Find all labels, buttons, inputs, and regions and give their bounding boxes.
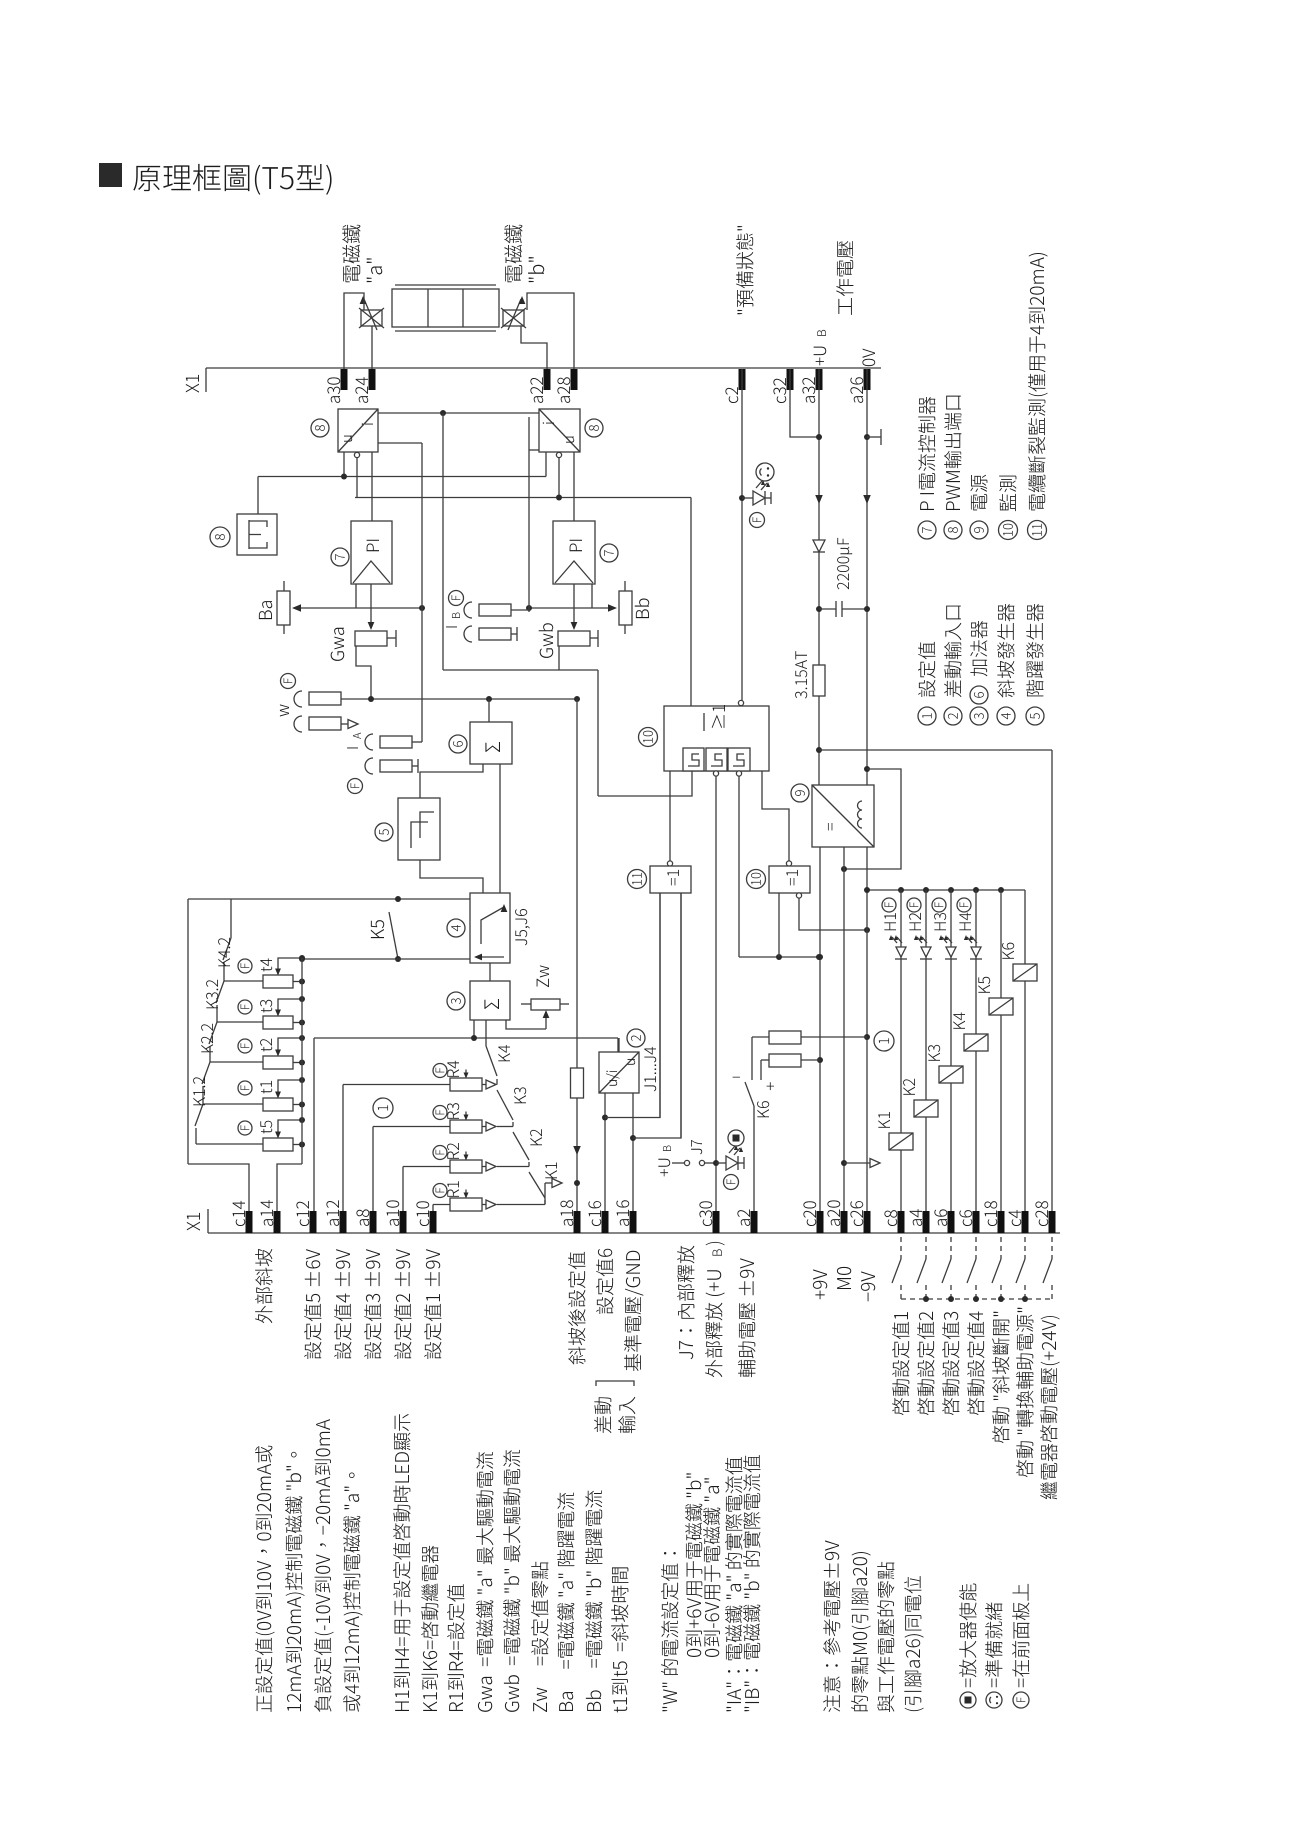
relay coil K6: [1013, 964, 1037, 981]
external ramp rail: [187, 899, 189, 1164]
wire node to sum: [442, 413, 444, 670]
legend notes left: [255, 1446, 275, 1712]
net c28: [1051, 750, 1053, 1211]
adder 3: [489, 963, 491, 981]
pin a24: [369, 369, 376, 390]
wire monitor bus (y497): [356, 457, 358, 498]
u/i converter U8a: [338, 409, 378, 452]
net a16: [632, 1093, 634, 1211]
switch K5: [188, 898, 470, 900]
pin c2: [739, 369, 746, 390]
potentiometer t1: [263, 1098, 293, 1111]
power supply block 9: [812, 785, 874, 847]
pin c18: [998, 1211, 1005, 1233]
u/i converter U8b: [539, 409, 580, 452]
PI controller 7a: [351, 521, 392, 584]
pin a26: [864, 369, 871, 390]
net a20 M0: [843, 847, 845, 1211]
net a18 ramped setpoint: [576, 699, 578, 1211]
pin c10: [430, 1211, 437, 1233]
switch K6 external release: [751, 1037, 753, 1080]
jumper J7: [658, 1159, 670, 1177]
relay coil K1: [889, 1133, 913, 1150]
pin c4: [1022, 1211, 1029, 1233]
wire i-bus between converters: [378, 412, 539, 414]
pin c6: [973, 1211, 980, 1233]
wire a24 to solenoid a: [371, 326, 373, 369]
resistor R-: [769, 1054, 801, 1067]
external switching contacts: [900, 1237, 902, 1259]
wire w summing node: [341, 698, 577, 700]
pin c20: [817, 1211, 824, 1233]
net c32: [790, 369, 819, 437]
potentiometer Gwb: [558, 631, 590, 646]
relay coil K2: [914, 1100, 938, 1117]
wire t-bus to ramp: [302, 958, 470, 960]
wire a28 to solenoid b: [527, 293, 574, 369]
wire PWM feed (y477): [258, 476, 546, 478]
pin function labels: [255, 1249, 272, 1323]
relay coil K5: [989, 998, 1013, 1015]
input w: [281, 674, 296, 689]
relay coil K3: [939, 1066, 963, 1083]
switch chain K4 K3 K2 K1: [485, 1020, 487, 1046]
wire a30 to solenoid a: [344, 293, 364, 369]
diode D1: [813, 540, 825, 552]
connector X1 top bus: [206, 367, 881, 369]
amplifier-enable symbol: [728, 1130, 744, 1146]
net c2 ready status: [741, 369, 743, 701]
+UB rail to relays: [819, 749, 1052, 751]
cable-break monitor block 10: [664, 706, 769, 771]
wire a26 wrap to M0: [844, 769, 901, 869]
net c16: [604, 1093, 606, 1211]
differential input bracket: [594, 1397, 611, 1433]
potentiometer Bb: [624, 581, 626, 591]
ramp generator 4: [420, 860, 483, 893]
potentiometer Ba: [283, 581, 285, 591]
pin a30: [341, 369, 348, 390]
wire sum3 to ui2 (y1038): [473, 1020, 475, 1038]
relay contact ladder K1.2-K4.2: [230, 899, 232, 938]
net c20 +9V: [819, 847, 821, 1211]
net a26 0V: [866, 369, 868, 785]
pin a6: [948, 1211, 955, 1233]
node 工作電壓: [836, 241, 853, 315]
pin c32: [787, 369, 794, 390]
connector X1 bottom bus: [208, 1232, 1060, 1234]
pin a2: [751, 1211, 758, 1233]
potentiometer t2: [263, 1056, 293, 1069]
chassis ground: [867, 436, 881, 438]
pin a8: [370, 1211, 377, 1233]
LED release indicator: [716, 1162, 726, 1164]
pin a32: [816, 369, 823, 390]
potentiometer R2 with feed from pin a10: [403, 1166, 450, 1168]
net +UB label: [814, 347, 827, 366]
u/i converter 2 J1..J4: [599, 1052, 639, 1093]
solenoid a: [361, 310, 382, 326]
pin a20: [841, 1211, 848, 1233]
symbol legend: [960, 1692, 976, 1708]
pin a28: [571, 369, 578, 390]
pin a12: [340, 1211, 347, 1233]
step generator 5: [420, 764, 483, 798]
legend right lower: [918, 707, 936, 725]
potentiometer t5: [263, 1138, 293, 1151]
node 預備狀態: [736, 226, 753, 314]
pin c28: [1049, 1211, 1056, 1233]
net a32 +UB: [818, 369, 820, 785]
pin c26: [864, 1211, 871, 1233]
pin c16: [602, 1211, 609, 1233]
resistor R+: [769, 1031, 801, 1044]
pin a18: [574, 1211, 581, 1233]
pin c12: [310, 1211, 317, 1233]
potentiometer R3 with feed from pin a8: [373, 1126, 450, 1128]
potentiometer Zw: [531, 999, 560, 1010]
XOR block 11: [650, 866, 691, 893]
pin a10: [400, 1211, 407, 1233]
net c26 -9V: [866, 847, 868, 1211]
net c4 via K6: [1024, 981, 1026, 1211]
solenoid b: [503, 310, 524, 326]
input IA: [347, 747, 358, 750]
proportional valve body: [392, 289, 499, 327]
pin a22: [544, 369, 551, 390]
t wiper bus: [301, 958, 303, 1164]
potentiometer Gwa: [355, 631, 387, 646]
LED ready indicator: [742, 497, 753, 499]
legend right upper: [918, 521, 936, 539]
input IB: [449, 591, 464, 606]
pin c14: [246, 1211, 253, 1233]
smiley ready symbol: [756, 463, 774, 481]
potentiometer R1 with feed from pin c10: [433, 1204, 450, 1206]
LED H3 on net a6: [950, 890, 952, 1211]
title block 原理框圖(T5型): [99, 163, 122, 187]
wire a22 to solenoid b: [521, 326, 547, 369]
monitor outputs: [669, 771, 671, 861]
PI controller 7b: [553, 521, 595, 584]
LED H1 on net c8: [900, 890, 902, 1211]
pin a4: [923, 1211, 930, 1233]
potentiometer R4 with feed from pin a12: [343, 1084, 450, 1086]
potentiometer t3: [263, 1016, 293, 1029]
pin a16: [630, 1211, 637, 1233]
PWM output block 8: [237, 514, 277, 555]
pin a14: [274, 1211, 281, 1233]
LED H2 on net a4: [925, 890, 927, 1211]
net c18: [1000, 890, 1002, 1211]
LED H4 on net c6: [975, 890, 977, 1211]
relay coil K4: [964, 1034, 988, 1051]
pin c30: [713, 1211, 720, 1233]
relay supply rail: [867, 889, 1025, 891]
pin c8: [898, 1211, 905, 1233]
potentiometer t4: [263, 975, 293, 988]
capacitor 2200µF: [819, 608, 836, 610]
adder 6: [488, 699, 490, 722]
fuse 3.15AT: [813, 665, 825, 696]
XOR block 10b: [769, 866, 810, 893]
net 0V label: [862, 349, 875, 366]
